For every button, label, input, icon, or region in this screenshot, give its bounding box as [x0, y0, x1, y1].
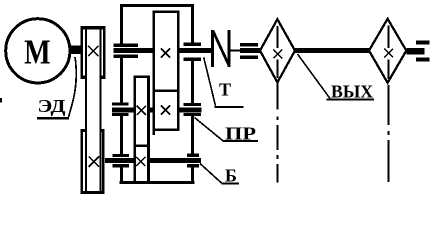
shaft T (top, output of gearbox)	[114, 48, 212, 53]
motor M (electric motor circle)	[6, 19, 70, 83]
coupling half bars before diamond 1	[240, 43, 261, 59]
x mark G4	[136, 157, 145, 166]
shaft end after diamond 2	[406, 48, 424, 54]
shaft PR (middle, intermediate)	[112, 107, 202, 112]
centerline dash-dot of diamond 1	[277, 26, 279, 183]
shaft B (bottom, input)	[105, 158, 201, 163]
x mark top pulley	[88, 46, 98, 56]
svg-text:ЭД: ЭД	[38, 96, 67, 116]
gear block G2 (gear on middle shaft)	[135, 77, 149, 146]
x mark diamond 1	[273, 50, 282, 59]
x mark bottom pulley	[89, 156, 99, 166]
label B (high-speed input shaft) with leader	[200, 164, 239, 186]
bearing gaps (white backing over walls)	[112, 43, 201, 168]
belt drive: belt lines	[85, 27, 102, 193]
x mark G3	[161, 105, 170, 114]
universal joint diamond 1	[260, 19, 295, 82]
x mark G1	[161, 48, 170, 57]
belt drive: top pulley	[81, 26, 106, 79]
bearing bars middle shaft at left wall	[112, 103, 128, 117]
label ED (electric motor) with leader	[37, 57, 76, 119]
label PR (intermediate shaft) with leader	[195, 118, 259, 144]
svg-text:Т: Т	[219, 80, 231, 100]
bearing bars top shaft at right wall	[183, 43, 201, 62]
thin link after N	[230, 49, 240, 51]
x mark diamond 2	[384, 49, 393, 58]
gear block G3 (pinion on middle shaft, meshes G1)	[154, 91, 178, 130]
bearing bars bottom shaft at right wall	[187, 153, 199, 167]
universal joint diamond 2	[369, 19, 406, 83]
gearbox housing	[120, 4, 195, 184]
bearing bars top shaft at left wall	[114, 44, 139, 59]
label T (slow-speed shaft) with leader	[204, 57, 244, 108]
belt drive: bottom pulley	[81, 129, 105, 194]
bearing bars middle shaft at right wall	[183, 103, 201, 116]
x mark G2	[137, 106, 146, 115]
motor shaft stub	[70, 46, 81, 55]
label VYH (output) with leader	[298, 54, 375, 102]
svg-text:М: М	[24, 33, 51, 72]
end coupling bars at right edge	[416, 41, 430, 62]
centerline dash-dot of diamond 2	[388, 26, 390, 183]
G3 left side tail stub	[153, 131, 156, 136]
gear block G1 (big gear on top shaft)	[154, 12, 178, 91]
bearing bars bottom shaft at left wall	[113, 154, 129, 167]
output shaft between joints	[295, 48, 369, 53]
gear block G4 (pinion on bottom shaft, meshes G2)	[135, 146, 149, 183]
coupling N (overload clutch symbol on shaft T)	[211, 30, 230, 67]
scan artifact mark left edge	[0, 98, 2, 103]
